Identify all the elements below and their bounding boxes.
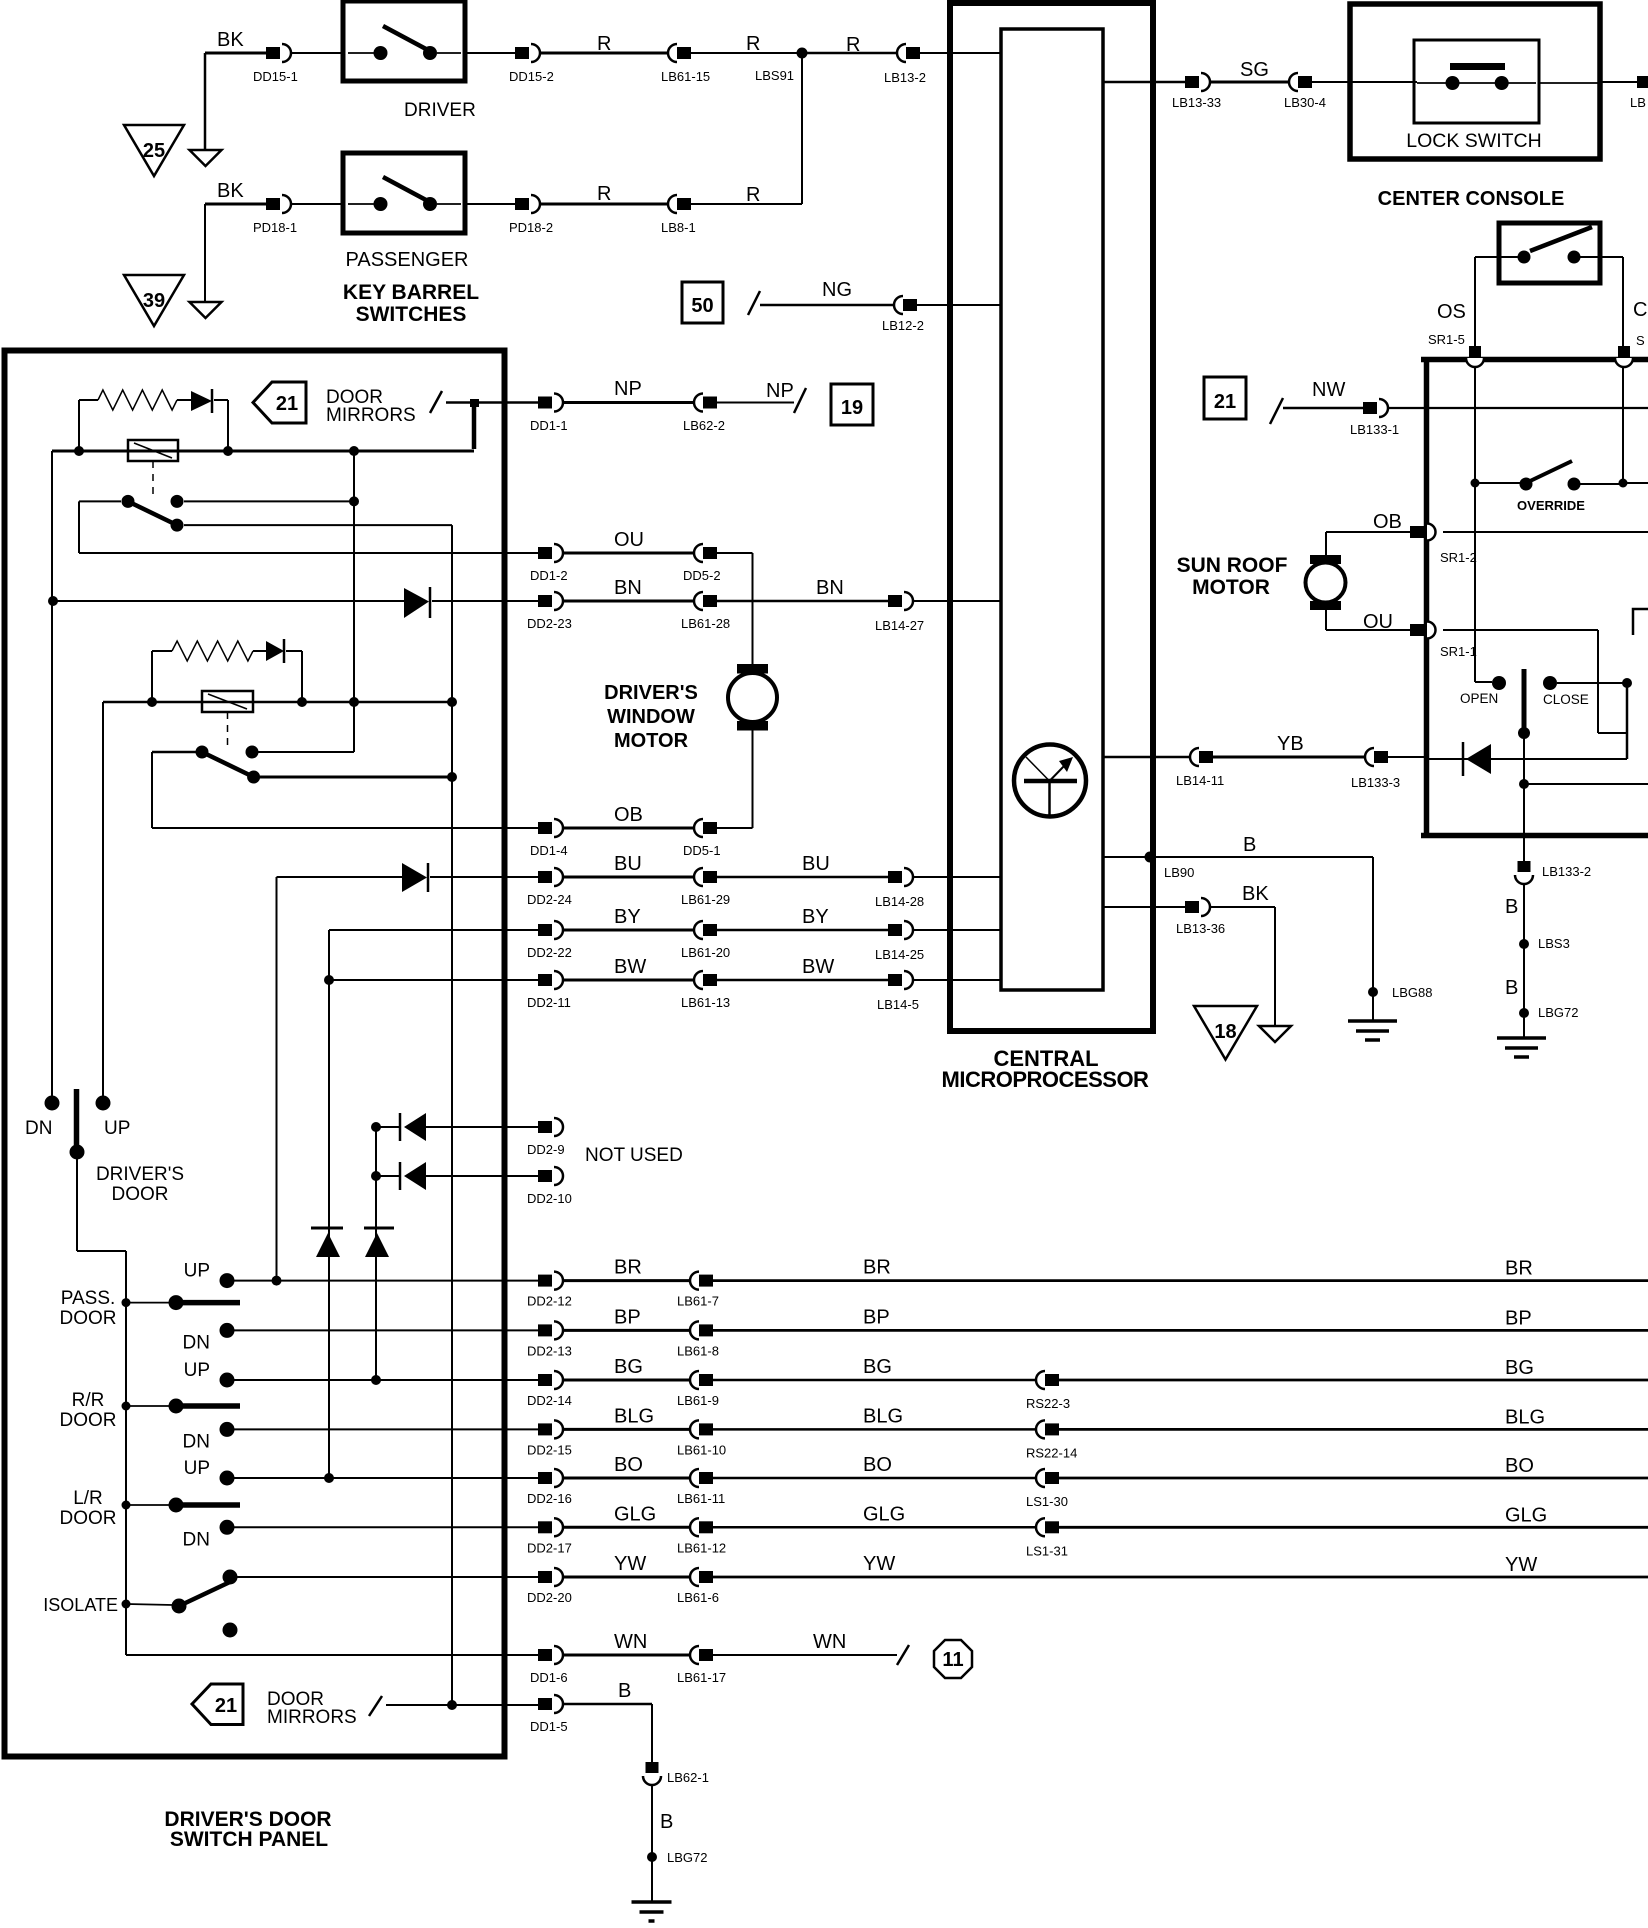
wire YB (1213, 756, 1365, 759)
wire B down (1523, 884, 1525, 1038)
connector RS22-3 (1036, 1371, 1045, 1389)
connector DD15-2 (515, 47, 529, 59)
svg-text:NP: NP (766, 380, 794, 402)
wire BN into microprocessor (913, 600, 1001, 602)
connector LB61-20 (694, 921, 703, 939)
svg-text:LB14-28: LB14-28 (875, 894, 924, 909)
svg-text:BY: BY (614, 906, 641, 928)
switch PASS. DOOR (122, 1298, 131, 1307)
diode D (sunroof) (1462, 742, 1465, 776)
thick drop to relay rail (472, 403, 477, 449)
wire NG into microprocessor (917, 304, 1001, 306)
svg-text:DD2-17: DD2-17 (527, 1540, 572, 1555)
svg-text:B: B (1505, 977, 1518, 999)
svg-text:WINDOW: WINDOW (607, 706, 695, 728)
wire B (563, 1703, 652, 1706)
driver's door window switch (45, 1096, 60, 1111)
connector DD2-10 (538, 1170, 552, 1182)
wire BY corner (329, 929, 538, 931)
connector DD2-20 (538, 1571, 552, 1583)
central microprocessor inner box (1001, 29, 1103, 990)
connector cup on wall (clipped label) (1615, 358, 1633, 367)
svg-text:DN: DN (183, 1332, 210, 1353)
svg-text:19: 19 (841, 397, 863, 419)
off-page slash NG (748, 291, 760, 315)
wire YB to sunroof box (1388, 756, 1429, 758)
connector SR1-1 on wall (1427, 622, 1436, 639)
connector DD2-24 (538, 871, 552, 883)
wire R segment (540, 203, 668, 206)
wire BO to right edge (1059, 1477, 1648, 1480)
svg-text:LB133-1: LB133-1 (1350, 422, 1399, 437)
wire GLG (713, 1526, 1036, 1529)
svg-text:DN: DN (183, 1529, 210, 1550)
svg-text:BO: BO (863, 1454, 892, 1476)
svg-text:MIRRORS: MIRRORS (267, 1707, 357, 1728)
ground (driver key barrel) (190, 150, 222, 166)
wire BP inside panel (234, 1329, 538, 1331)
ground (BK) (1259, 1026, 1291, 1042)
svg-text:LB61-15: LB61-15 (661, 69, 710, 84)
svg-text:DRIVER'S: DRIVER'S (604, 682, 698, 704)
wire NW into sunroof box (1388, 407, 1648, 409)
connector DD1-5 (538, 1698, 552, 1710)
svg-text:DN: DN (183, 1431, 210, 1452)
svg-text:LB61-20: LB61-20 (681, 945, 730, 960)
switch DRIVER (key barrel) (343, 1, 465, 81)
inner box corner (clipped) (1633, 609, 1648, 635)
svg-text:LB62-2: LB62-2 (683, 418, 725, 433)
page reference box 21 (1204, 377, 1246, 419)
wire relay1 NO to vertical x452 (184, 524, 452, 526)
svg-text:DD2-22: DD2-22 (527, 945, 572, 960)
svg-text:CENTER CONSOLE: CENTER CONSOLE (1378, 188, 1565, 210)
wire OU from motor (1325, 610, 1327, 630)
off-page slash WN (897, 1645, 909, 1665)
connector DD2-12 (538, 1275, 552, 1287)
svg-text:MOTOR: MOTOR (614, 730, 689, 752)
wire BY (563, 929, 694, 932)
connector SR1-5 cup on wall (1466, 358, 1484, 367)
svg-text:DD5-2: DD5-2 (683, 568, 721, 583)
wire relay1 NC to vertical (184, 500, 354, 502)
svg-text:NG: NG (822, 279, 852, 301)
connector LB133-3 (1365, 748, 1374, 766)
wire GLG inside panel (234, 1526, 538, 1528)
ground LBG88 (1372, 992, 1374, 1021)
svg-text:BP: BP (1505, 1307, 1532, 1329)
svg-text:SR1-5: SR1-5 (1428, 332, 1465, 347)
page reference box 50 (682, 282, 723, 323)
connector LB62-2 (694, 394, 703, 412)
svg-text:LB133-2: LB133-2 (1542, 864, 1591, 879)
diode D4 (not used) (376, 1126, 401, 1128)
connector DD15-1 (266, 47, 280, 59)
svg-text:SWITCHES: SWITCHES (356, 303, 467, 326)
ground reference triangle 25 (124, 125, 184, 176)
wire BU into microprocessor (913, 876, 1001, 878)
svg-text:DD5-1: DD5-1 (683, 843, 721, 858)
svg-text:LS1-31: LS1-31 (1026, 1543, 1068, 1558)
wire BN inside panel with diode (53, 600, 404, 602)
wire BLG (713, 1428, 1036, 1431)
svg-text:UP: UP (184, 1261, 210, 1282)
svg-text:LB61-17: LB61-17 (677, 1670, 726, 1685)
svg-text:DD1-6: DD1-6 (530, 1670, 568, 1685)
wire YW (563, 1576, 690, 1579)
connector LS1-31 (1036, 1518, 1045, 1536)
svg-text:LBS3: LBS3 (1538, 936, 1570, 951)
diode D8 (BN) (404, 588, 429, 618)
svg-text:DD1-5: DD1-5 (530, 1719, 568, 1734)
wire YW inside panel (237, 1576, 538, 1578)
wire WN inside panel (126, 1654, 538, 1656)
svg-text:SWITCH PANEL: SWITCH PANEL (170, 1828, 328, 1851)
ground LBG72 (door mirrors) (632, 1900, 672, 1904)
wire UP feed from rail2 (102, 702, 104, 1096)
svg-text:LB61-6: LB61-6 (677, 1590, 719, 1605)
svg-text:LB8-1: LB8-1 (661, 220, 696, 235)
wire NP (563, 401, 694, 404)
wire R to LB13-2 (802, 52, 897, 55)
wire DD15-1 to switch box (291, 52, 343, 54)
wire OU (563, 552, 694, 555)
svg-text:SG: SG (1240, 59, 1269, 81)
connector LS1-30 (1036, 1469, 1045, 1487)
svg-text:LB61-8: LB61-8 (677, 1343, 719, 1358)
svg-text:BN: BN (816, 577, 844, 599)
svg-text:OS: OS (1437, 301, 1466, 323)
wire BN (563, 600, 694, 603)
svg-text:NW: NW (1312, 379, 1345, 401)
wire BR to right edge (713, 1279, 1648, 1282)
svg-text:BR: BR (1505, 1258, 1533, 1280)
connector LB14-27 (888, 595, 902, 607)
junction node (1519, 779, 1529, 789)
sun roof assembly box (thick) (1421, 357, 1648, 363)
svg-text:GLG: GLG (614, 1503, 656, 1525)
svg-text:OB: OB (1373, 511, 1402, 533)
svg-text:RS22-3: RS22-3 (1026, 1396, 1070, 1411)
svg-text:18: 18 (1214, 1021, 1236, 1043)
connector LB14-11 (1190, 748, 1199, 766)
svg-text:LB61-28: LB61-28 (681, 616, 730, 631)
svg-text:DD2-24: DD2-24 (527, 892, 572, 907)
connector LB61-11 (690, 1469, 699, 1487)
wire BR (563, 1279, 690, 1282)
wire R to splice LBS91 (691, 52, 802, 54)
LOCK SWITCH inner box (1414, 40, 1539, 123)
diode D7 (pull-up on x376) (364, 1227, 394, 1230)
relay 2 changeover switch (196, 746, 209, 759)
connector DD2-16 (538, 1472, 552, 1484)
connector DD2-14 (538, 1374, 552, 1386)
vertical link x277 (276, 877, 278, 1281)
connector LB12-2 (894, 296, 903, 314)
svg-text:PD18-1: PD18-1 (253, 220, 297, 235)
wire relay1 common to OU row (79, 500, 121, 502)
svg-text:OU: OU (614, 529, 644, 551)
wire lock switch to right edge (1539, 82, 1600, 84)
wire B from microprocessor (1103, 856, 1373, 858)
wire BG (563, 1379, 690, 1382)
junction (door mirrors) (470, 399, 479, 407)
wire OB to window motor (717, 827, 753, 829)
svg-text:DRIVER: DRIVER (404, 100, 476, 121)
svg-text:YW: YW (614, 1553, 646, 1575)
svg-text:RS22-14: RS22-14 (1026, 1445, 1077, 1460)
wire BU corner (277, 876, 403, 878)
svg-text:11: 11 (942, 1649, 963, 1671)
diode D2 (relay 2) (253, 650, 266, 652)
svg-text:R: R (597, 33, 611, 55)
svg-text:39: 39 (143, 290, 165, 312)
relay 1 actuator dashed link (152, 461, 154, 494)
svg-text:PASSENGER: PASSENGER (346, 249, 469, 271)
connector LB133-1 (1363, 402, 1377, 414)
svg-text:DD1-4: DD1-4 (530, 843, 568, 858)
ground (passenger key barrel) (190, 302, 222, 318)
svg-text:GLG: GLG (1505, 1504, 1547, 1526)
wire YB diode row inside box (1429, 758, 1627, 760)
connector DD5-1 (694, 819, 703, 837)
splice LBG72 (647, 1852, 657, 1862)
connector LB61-29 (694, 868, 703, 886)
svg-text:DD2-23: DD2-23 (527, 616, 572, 631)
connector DD1-6 (538, 1649, 552, 1661)
svg-text:LBS91: LBS91 (755, 68, 794, 83)
wire lever common down (1523, 733, 1525, 862)
svg-text:MIRRORS: MIRRORS (326, 405, 416, 426)
svg-text:LB13-36: LB13-36 (1176, 921, 1225, 936)
svg-text:DD2-16: DD2-16 (527, 1491, 572, 1506)
svg-text:BU: BU (614, 853, 642, 875)
wire BG to right edge (1059, 1379, 1648, 1382)
svg-text:MICROPROCESSOR: MICROPROCESSOR (942, 1067, 1150, 1092)
svg-text:50: 50 (691, 295, 713, 317)
svg-text:BLG: BLG (614, 1405, 654, 1427)
svg-text:BLG: BLG (863, 1405, 903, 1427)
connector LB61-10 (690, 1420, 699, 1438)
wire BW into microprocessor (913, 979, 1001, 981)
connector DD2-23 (538, 595, 552, 607)
wire CS cup down inside (1622, 366, 1624, 483)
wire BLG (563, 1428, 690, 1431)
wire BW (717, 979, 888, 982)
connector LB62-1 (646, 1762, 659, 1773)
switch R/R DOOR (122, 1402, 131, 1411)
wire resistor2 leg down (151, 651, 153, 702)
junction BO (324, 1473, 334, 1483)
wire BR inside panel (234, 1280, 538, 1282)
diode D6 (pull-up on x329) (311, 1227, 343, 1230)
connector LB61-17 (690, 1646, 699, 1664)
junction BW (324, 975, 334, 985)
svg-text:LB13-33: LB13-33 (1172, 95, 1221, 110)
svg-text:SR1-2: SR1-2 (1440, 550, 1477, 565)
svg-text:BW: BW (802, 956, 834, 978)
off-page slash (369, 1696, 382, 1716)
switch L/R DOOR (122, 1501, 131, 1510)
svg-text:BN: BN (614, 577, 642, 599)
svg-text:LOCK SWITCH: LOCK SWITCH (1406, 130, 1541, 152)
wire YB from microprocessor (1103, 756, 1190, 759)
connector LB61-12 (690, 1518, 699, 1536)
connector LB14-28 (888, 871, 902, 883)
svg-text:B: B (1505, 896, 1518, 918)
svg-text:YB: YB (1277, 733, 1304, 755)
svg-text:BG: BG (863, 1356, 892, 1378)
connector DD2-9 (538, 1121, 552, 1133)
splice LB90 (1145, 852, 1156, 863)
svg-text:DD2-10: DD2-10 (527, 1191, 572, 1206)
svg-text:LB61-29: LB61-29 (681, 892, 730, 907)
vertical link x329 (328, 930, 330, 1478)
svg-text:DD2-9: DD2-9 (527, 1142, 565, 1157)
svg-text:BW: BW (614, 956, 646, 978)
svg-text:DRIVER'S: DRIVER'S (96, 1164, 184, 1185)
svg-text:LB61-11: LB61-11 (677, 1491, 725, 1506)
svg-text:DOOR: DOOR (112, 1184, 169, 1205)
wire OB (563, 827, 694, 830)
svg-text:DD15-2: DD15-2 (509, 69, 554, 84)
splice LBS3 (1519, 939, 1529, 949)
svg-text:DOOR: DOOR (60, 1308, 117, 1329)
page arrow 21 DOOR MIRRORS (bottom) (192, 1684, 243, 1725)
wire BG inside panel (234, 1379, 538, 1381)
wire BLG to right edge (1059, 1428, 1648, 1431)
relay 2 actuator dashed link (227, 712, 229, 745)
svg-text:R: R (846, 34, 860, 56)
svg-text:R/R: R/R (72, 1390, 105, 1411)
switch PASSENGER (key barrel) (343, 153, 465, 233)
wire BK to ground (1210, 906, 1275, 908)
wire SR1-5 down inside (1474, 366, 1476, 682)
switch OVERRIDE (1471, 479, 1480, 488)
svg-text:BU: BU (802, 853, 830, 875)
svg-text:SUN ROOF: SUN ROOF (1177, 554, 1288, 577)
connector LB61-6 (690, 1568, 699, 1586)
svg-text:BK: BK (217, 180, 244, 202)
svg-text:DD2-13: DD2-13 (527, 1343, 572, 1358)
vertical link x376 (375, 1127, 377, 1380)
connector DD1-1 (538, 397, 552, 409)
svg-text:DD2-15: DD2-15 (527, 1442, 572, 1457)
svg-text:BY: BY (802, 906, 829, 928)
wire diode leg down (227, 400, 229, 451)
wire relay2 NO to vertical x452 (260, 776, 452, 779)
connector LB61-7 (690, 1272, 699, 1290)
wire CS contact down (1580, 256, 1623, 258)
relay 1 changeover switch (122, 495, 135, 508)
svg-text:BK: BK (1242, 883, 1269, 905)
switch OS/CS (sunroof rocker) (1499, 223, 1600, 283)
svg-text:R: R (597, 183, 611, 205)
connector DD2-13 (538, 1324, 552, 1336)
svg-text:21: 21 (1214, 391, 1236, 413)
svg-text:OU: OU (1363, 611, 1393, 633)
svg-text:LB90: LB90 (1164, 865, 1194, 880)
wire OB inside sunroof box (1443, 531, 1648, 533)
connector LB133-2 (1518, 861, 1531, 872)
wire DN feed from rail1 (51, 451, 53, 1096)
wire relay2 common to OB row (152, 751, 196, 754)
wire NW (1283, 407, 1363, 410)
svg-text:OB: OB (614, 804, 643, 826)
sun roof motor M (1310, 555, 1341, 564)
driver's door switch panel box (5, 351, 505, 1757)
resistor R1 (mirror relay 1) (79, 399, 98, 401)
svg-text:LB133-3: LB133-3 (1351, 775, 1400, 790)
svg-text:LB61-10: LB61-10 (677, 1442, 726, 1457)
connector at right edge (clipped) (1637, 76, 1648, 88)
svg-text:SR1-1: SR1-1 (1440, 644, 1477, 659)
connector DD1-2 (538, 547, 552, 559)
diode D5 (not used) (376, 1175, 401, 1177)
wire BU (717, 876, 888, 879)
junction (447, 1700, 457, 1710)
ground reference triangle 18 (1194, 1006, 1257, 1060)
svg-text:ISOLATE: ISOLATE (43, 1595, 118, 1615)
wire WN to slash (713, 1654, 897, 1656)
connector LB61-15 (668, 44, 677, 62)
svg-text:LB61-13: LB61-13 (681, 995, 730, 1010)
wire BO (713, 1477, 1036, 1480)
connector SR1-2 on wall (1427, 524, 1436, 541)
svg-text:LB61-12: LB61-12 (677, 1540, 726, 1555)
connector LB30-4 (1289, 73, 1298, 91)
wire to right edge (1524, 783, 1648, 785)
svg-text:NP: NP (614, 378, 642, 400)
wire GLG to right edge (1059, 1526, 1648, 1529)
wire SG to LB30-4 (1210, 81, 1289, 84)
svg-text:B: B (1243, 834, 1256, 856)
connector LB8-1 (668, 195, 677, 213)
wire driver switch to DD15-2 (465, 52, 515, 54)
splice LBS91 (797, 48, 808, 59)
svg-text:LB14-25: LB14-25 (875, 947, 924, 962)
svg-text:DD15-1: DD15-1 (253, 69, 298, 84)
svg-text:LBG72: LBG72 (667, 1850, 707, 1865)
svg-text:DD2-14: DD2-14 (527, 1393, 572, 1408)
svg-text:UP: UP (184, 1360, 210, 1381)
resistor R2 (mirror relay 2) (152, 650, 172, 652)
wire BK from microprocessor (1103, 906, 1185, 908)
wire BY into microprocessor (913, 929, 1001, 931)
svg-text:LBG88: LBG88 (1392, 985, 1432, 1000)
svg-text:YW: YW (1505, 1554, 1537, 1576)
svg-text:LB61-9: LB61-9 (677, 1393, 719, 1408)
connector LB61-8 (690, 1321, 699, 1339)
svg-text:LB13-2: LB13-2 (884, 70, 926, 85)
svg-text:DN: DN (25, 1118, 52, 1139)
wire into lock switch (1312, 81, 1417, 83)
splice LBG72 (1519, 1008, 1529, 1018)
LOCK SWITCH outer box (1350, 4, 1600, 159)
svg-text:WN: WN (813, 1631, 846, 1653)
svg-text:L/R: L/R (73, 1488, 103, 1509)
wire R segment (540, 52, 668, 55)
central microprocessor U1 outer box (950, 3, 1153, 1031)
wire PD18-1 to switch box (291, 203, 343, 205)
svg-text:UP: UP (184, 1458, 210, 1479)
connector LB14-5 (888, 974, 902, 986)
svg-text:BO: BO (1505, 1455, 1534, 1477)
wire BP to right edge (713, 1329, 1648, 1332)
svg-text:R: R (746, 33, 760, 55)
svg-text:WN: WN (614, 1631, 647, 1653)
wire BN (717, 600, 888, 603)
